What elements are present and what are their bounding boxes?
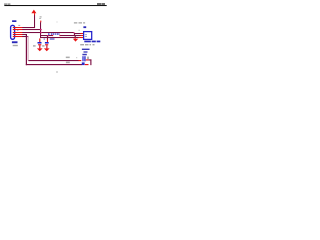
wire net2 horizontal — [22, 29, 41, 30]
title separator line — [4, 5, 106, 6]
IC U2 ref label — [83, 26, 86, 28]
connector pin 4 — [13, 34, 23, 35]
power port VCC arrow — [31, 10, 36, 16]
wire vertical branch — [40, 22, 41, 38]
power tick red — [40, 21, 41, 23]
wire net3 horizontal — [22, 32, 74, 33]
wire VCC vertical — [34, 15, 35, 28]
power port GND arrow near IC — [73, 36, 78, 42]
IC U2 body — [84, 32, 92, 40]
capacitor C1 lead red — [39, 38, 40, 42]
IC gray text row — [80, 44, 94, 45]
junction dot blue on lower rail — [82, 62, 85, 65]
junction dot cap2 feed — [47, 35, 49, 36]
wire net1 horizontal — [22, 27, 35, 28]
header text left — [4, 3, 10, 5]
wire net4 horizontal — [22, 34, 27, 35]
pin number 1 text — [18, 25, 20, 26]
background — [0, 0, 114, 80]
IC part number label blue — [84, 41, 100, 43]
connector pin 1 — [13, 27, 23, 28]
connector pin 5 — [13, 36, 23, 37]
rail2 value label — [66, 62, 70, 64]
IC pin stub row1 — [80, 33, 83, 34]
wire A left segment — [40, 35, 53, 36]
header text right — [97, 3, 105, 5]
connector pin 3 — [13, 32, 23, 33]
page number dot — [56, 71, 57, 72]
junction dot net2 — [40, 29, 42, 30]
lower rail — [26, 64, 82, 65]
junction net3 step — [73, 32, 74, 33]
gray text above IC — [74, 22, 85, 24]
blue text row c — [82, 54, 86, 56]
red end tick wire A left — [51, 35, 54, 36]
capacitor C3 red bar out — [86, 59, 89, 60]
capacitor C2 — [44, 42, 50, 51]
net label near power tick — [39, 16, 42, 19]
capacitor C3 plate 1 — [82, 56, 83, 61]
wire wrap horizontal — [89, 59, 92, 60]
wire net3 step right to IC — [74, 33, 81, 34]
capacitor C1 — [37, 42, 43, 51]
wire wrap vertical — [90, 59, 91, 65]
wire A right segment to IC — [60, 35, 81, 36]
upper rail — [28, 60, 78, 61]
net label blue row1 — [48, 33, 60, 34]
wire B horizontal — [40, 37, 79, 38]
wire net4 vertical down — [26, 34, 27, 65]
net label blue row2 — [50, 38, 55, 39]
capacitor C1 side label gray — [33, 45, 36, 47]
connector USB1 ref label — [12, 20, 16, 22]
wire vertical net3 down to wire A — [74, 33, 75, 36]
blue text row a — [82, 49, 90, 50]
connector USB1 body — [11, 25, 15, 39]
capacitor C2 label blue — [44, 38, 46, 41]
tiny gray mark right of rail1 label — [76, 57, 77, 58]
red stub end of upper rail — [79, 60, 82, 61]
IC pin stub row3 — [79, 37, 84, 38]
connector bottom label — [12, 41, 18, 43]
red start tick wire A right — [59, 35, 60, 36]
capacitor C2 lead — [47, 36, 48, 42]
connector pin 2 — [13, 29, 23, 30]
capacitor C2 side label gray — [42, 45, 44, 47]
pin number dot near IC — [78, 30, 81, 31]
IC pin name texts inside — [85, 34, 87, 37]
rail1 value label — [66, 57, 70, 59]
gray mark right of plates — [87, 57, 89, 60]
pin number 2 text — [17, 29, 18, 32]
junction dot net3 — [40, 32, 42, 33]
faint dot mid — [57, 22, 58, 23]
blue text row b — [84, 51, 88, 52]
red segment lower rail — [85, 64, 89, 65]
capacitor C3 plate 2 — [84, 56, 85, 61]
wire net5 vertical down light — [27, 36, 30, 61]
wire net5 horizontal — [22, 36, 28, 37]
IC pin stub row2 — [81, 35, 83, 36]
connector value text — [13, 45, 18, 46]
